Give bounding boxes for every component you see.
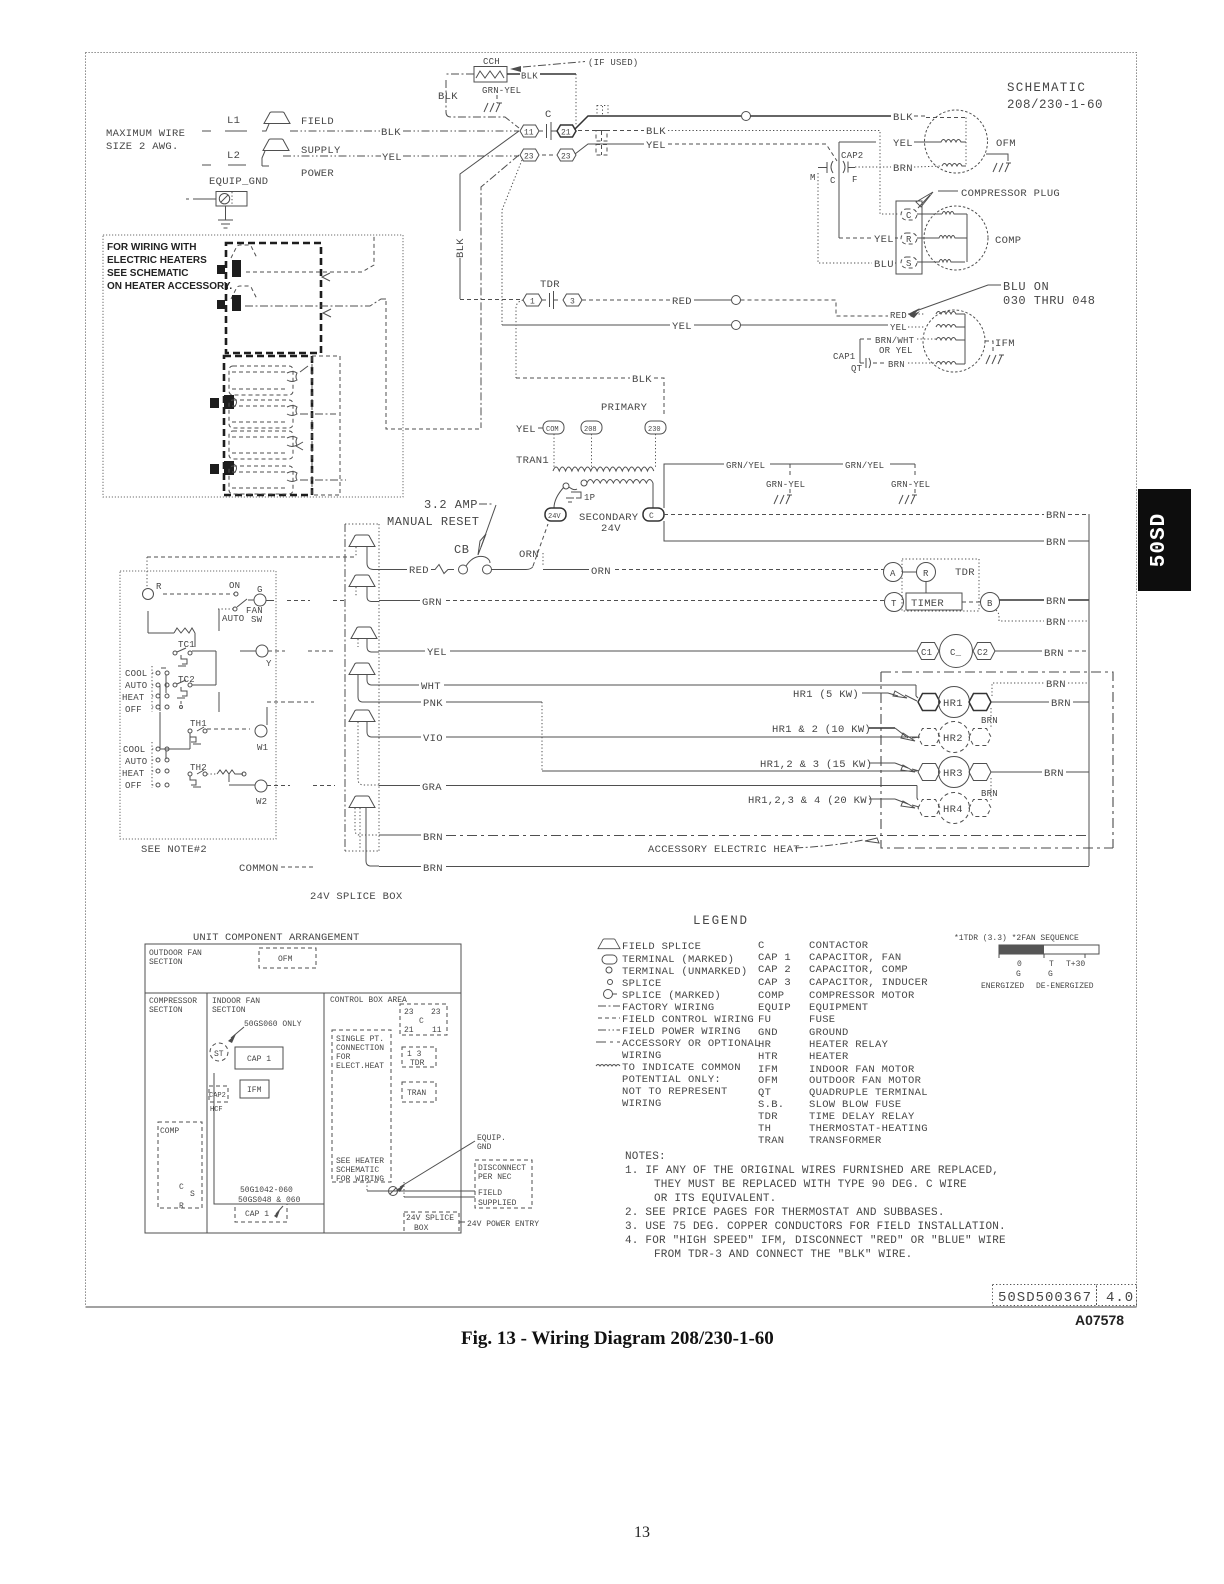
- svg-text:TDR: TDR: [955, 567, 975, 579]
- svg-text:50GS048 & 060: 50GS048 & 060: [238, 1196, 301, 1205]
- svg-text:SCHEMATIC: SCHEMATIC: [336, 1166, 379, 1175]
- svg-text:HR3: HR3: [943, 768, 963, 780]
- terminal W2: [255, 780, 267, 807]
- svg-text:POWER: POWER: [301, 168, 334, 180]
- svg-text:1P: 1P: [584, 493, 595, 503]
- COMP box: [158, 1122, 202, 1211]
- svg-text:COMPRESSOR MOTOR: COMPRESSOR MOTOR: [809, 990, 915, 1002]
- schematic title: [1007, 81, 1103, 112]
- svg-text:HCF: HCF: [210, 1106, 223, 1114]
- svg-text:CAPACITOR, COMP: CAPACITOR, COMP: [809, 964, 908, 976]
- svg-text:TDR: TDR: [758, 1111, 778, 1123]
- wire IFM to ground: [985, 341, 993, 353]
- svg-text:T: T: [1049, 960, 1054, 969]
- wire BRN row dashed: [379, 832, 1089, 844]
- selector lower COOL AUTO HEAT OFF: [122, 712, 190, 791]
- svg-text:COMP: COMP: [995, 235, 1021, 247]
- 50SD side tab: [1138, 489, 1191, 591]
- svg-text:SECTION: SECTION: [149, 1006, 183, 1015]
- svg-text:CONTACTOR: CONTACTOR: [809, 940, 869, 952]
- field splice R: [349, 535, 379, 570]
- plug terminal C: [901, 209, 917, 221]
- svg-text:W2: W2: [256, 797, 267, 807]
- wire R dashes: [147, 556, 355, 558]
- field splice GRN: [349, 575, 379, 602]
- svg-text:RED: RED: [890, 311, 907, 321]
- label SECONDARY 24V: [579, 512, 639, 535]
- wire TC2 to bus: [192, 684, 216, 686]
- svg-text:TC1: TC1: [178, 640, 195, 650]
- ground lug: [367, 1182, 475, 1197]
- svg-text:COMP: COMP: [758, 990, 784, 1002]
- wire YEL row: [268, 647, 917, 659]
- svg-text:R: R: [179, 1202, 184, 1211]
- svg-text:SUPPLIED: SUPPLIED: [478, 1199, 517, 1208]
- terminal 3 (TDR): [563, 294, 582, 307]
- thermostat outline: [120, 571, 276, 839]
- svg-text:Fig. 13 - Wiring Diagram 208/2: Fig. 13 - Wiring Diagram 208/230-1-60: [461, 1328, 774, 1349]
- svg-text:EQUIP: EQUIP: [758, 1002, 791, 1014]
- wire heater to YEL feed: [386, 301, 481, 429]
- right bus vertical: [1088, 514, 1090, 866]
- label INDOOR FAN SECTION: [212, 997, 260, 1015]
- secondary winding: [563, 480, 653, 509]
- contactor coil C2: [973, 643, 995, 660]
- svg-text:CAP2: CAP2: [209, 1092, 226, 1100]
- svg-text:SUPPLY: SUPPLY: [301, 145, 341, 157]
- svg-text:BRN: BRN: [1046, 679, 1066, 691]
- svg-text:11: 11: [432, 1026, 442, 1035]
- node L1: [202, 115, 247, 131]
- terminal 23 a: [520, 149, 539, 162]
- ground 2 GRN-YEL: [891, 464, 930, 504]
- svg-text:G: G: [257, 585, 263, 595]
- wire BRN/WHT to IFM: [860, 336, 936, 356]
- title block 50SD500367 / 4.0: [993, 1285, 1137, 1307]
- svg-text:YEL: YEL: [516, 424, 536, 436]
- svg-text:Y: Y: [266, 659, 272, 669]
- breaker CB contacts: [459, 556, 492, 574]
- svg-text:1. IF ANY OF THE ORIGINAL WIR: 1. IF ANY OF THE ORIGINAL WIRES FURNISHE…: [625, 1165, 999, 1177]
- heater relay HR2: [918, 722, 991, 753]
- svg-text:23: 23: [431, 1008, 441, 1017]
- svg-text:SINGLE PT.: SINGLE PT.: [336, 1035, 384, 1044]
- svg-text:C: C: [758, 940, 765, 952]
- wire BLK primary feed: [516, 374, 664, 414]
- svg-text:4.0: 4.0: [1106, 1290, 1134, 1306]
- svg-text:ENERGIZED: ENERGIZED: [981, 982, 1024, 991]
- label 50GS060 ONLY with arrow: [228, 1020, 302, 1043]
- svg-text:CAP 1: CAP 1: [758, 952, 791, 964]
- svg-text:BLU ON: BLU ON: [1003, 280, 1049, 294]
- svg-text:AUTO: AUTO: [125, 757, 147, 767]
- svg-text:TH2: TH2: [190, 763, 207, 773]
- svg-text:SECTION: SECTION: [212, 1006, 246, 1015]
- svg-text:COOL: COOL: [125, 669, 147, 679]
- wire BRN HR1-HR2: [981, 708, 998, 729]
- svg-text:HR1,2,3 & 4 (20 KW): HR1,2,3 & 4 (20 KW): [748, 795, 873, 807]
- svg-text:QT: QT: [758, 1087, 771, 1099]
- anticipator TC2: [173, 675, 195, 709]
- svg-text:R: R: [156, 582, 162, 592]
- svg-text:EQUIPMENT: EQUIPMENT: [809, 1002, 868, 1014]
- svg-text:HR: HR: [758, 1039, 772, 1051]
- svg-text:TH1: TH1: [190, 719, 207, 729]
- svg-text:24V POWER ENTRY: 24V POWER ENTRY: [467, 1220, 539, 1229]
- terminal COM: [543, 421, 564, 434]
- svg-text:HR1 (5 KW): HR1 (5 KW): [793, 689, 859, 701]
- wire BRN HR1 upper: [992, 679, 1089, 696]
- svg-text:50G1042-060: 50G1042-060: [240, 1186, 293, 1195]
- svg-text:R: R: [906, 235, 912, 245]
- thermostat TH1: [188, 719, 207, 749]
- contact bars TDR: [542, 299, 558, 301]
- svg-text:CAPACITOR, INDUCER: CAPACITOR, INDUCER: [809, 977, 928, 989]
- wire TH1 to W1: [207, 728, 250, 730]
- wire R to TIMER: [925, 582, 927, 594]
- legend symbol terminal marked: [602, 954, 734, 966]
- heater lower inner dashed box: [312, 356, 340, 495]
- svg-text:MAXIMUM WIRE: MAXIMUM WIRE: [106, 128, 185, 140]
- ground OFM: [993, 163, 1011, 172]
- legend symbol terminal unmarked: [606, 966, 747, 978]
- wire YEL vertical to IFM: [502, 160, 522, 325]
- svg-text:BRN: BRN: [1046, 537, 1066, 549]
- svg-text:OUTDOOR FAN MOTOR: OUTDOOR FAN MOTOR: [809, 1075, 922, 1087]
- svg-text:24V SPLICE: 24V SPLICE: [406, 1214, 454, 1223]
- field splice VIO: [349, 710, 379, 785]
- svg-text:FIELD SPLICE: FIELD SPLICE: [622, 941, 701, 953]
- wire ORN to 24V: [492, 524, 549, 570]
- svg-text:BRN: BRN: [981, 789, 998, 799]
- svg-text:EQUIP.: EQUIP.: [477, 1134, 506, 1143]
- svg-text:ORN: ORN: [591, 566, 611, 578]
- svg-text:030 THRU 048: 030 THRU 048: [1003, 294, 1095, 308]
- svg-text:FIELD: FIELD: [301, 116, 334, 128]
- svg-text:TRAN1: TRAN1: [516, 455, 549, 467]
- label BLU ON 030 THRU 048 with arrow: [908, 280, 1095, 317]
- quadruple terminal QT3: [596, 145, 607, 156]
- svg-text:YEL: YEL: [890, 323, 907, 333]
- coil C: [940, 635, 973, 668]
- svg-text:CAPACITOR, FAN: CAPACITOR, FAN: [809, 952, 901, 964]
- svg-text:INDOOR FAN: INDOOR FAN: [212, 997, 260, 1006]
- svg-text:PNK: PNK: [423, 698, 443, 710]
- svg-text:HEATER RELAY: HEATER RELAY: [809, 1039, 889, 1051]
- terminal Y: [240, 645, 272, 669]
- svg-text:CAP1: CAP1: [833, 352, 855, 362]
- svg-text:BRN: BRN: [888, 360, 905, 370]
- svg-text:TRAN: TRAN: [758, 1135, 784, 1147]
- svg-text:3. USE 75 DEG. COPPER CONDUCT: 3. USE 75 DEG. COPPER CONDUCTORS FOR FIE…: [625, 1221, 1006, 1233]
- svg-text:OUTDOOR FAN: OUTDOOR FAN: [149, 949, 202, 958]
- bus vertical thermostat: [216, 609, 219, 712]
- node L2: [202, 150, 246, 165]
- wire TIMER to B: [962, 601, 980, 603]
- terminal W1: [255, 707, 268, 753]
- svg-text:HR2: HR2: [943, 733, 963, 745]
- wire BLK left of CCH: [438, 74, 519, 128]
- resistor CCH: [474, 67, 507, 83]
- svg-text:23: 23: [404, 1008, 414, 1017]
- wire BRN from B solid: [1000, 596, 1090, 608]
- svg-text:THERMOSTAT-HEATING: THERMOSTAT-HEATING: [809, 1123, 928, 1135]
- svg-text:COMPRESSOR: COMPRESSOR: [149, 997, 197, 1006]
- svg-text:2. SEE PRICE PAGES FOR THERMO: 2. SEE PRICE PAGES FOR THERMOSTAT AND SU…: [625, 1207, 945, 1219]
- svg-text:LEGEND: LEGEND: [693, 914, 749, 928]
- terminal A: [884, 563, 903, 582]
- svg-text:PRIMARY: PRIMARY: [601, 402, 648, 414]
- svg-text:ON: ON: [229, 581, 240, 591]
- svg-text:BLK: BLK: [438, 91, 458, 103]
- svg-text:1: 1: [530, 298, 535, 307]
- svg-text:TC2: TC2: [178, 675, 195, 685]
- svg-text:F: F: [852, 175, 858, 185]
- wire YEL to OFM: [839, 138, 925, 150]
- svg-text:GRN: GRN: [422, 597, 442, 609]
- label OUTDOOR FAN SECTION: [149, 949, 202, 967]
- svg-text:50GS060 ONLY: 50GS060 ONLY: [244, 1020, 302, 1029]
- svg-text:GRN-YEL: GRN-YEL: [766, 480, 805, 490]
- label MAXIMUM WIRE SIZE 2 AWG: [106, 128, 185, 153]
- label EQUIP. GND with arrow: [396, 1134, 506, 1192]
- motor COMP: [917, 206, 988, 270]
- legend accessory wiring: [596, 1038, 761, 1062]
- plug terminal R: [901, 233, 917, 245]
- svg-text:TDR: TDR: [540, 279, 560, 291]
- heat anticipator resistor W2: [207, 770, 255, 785]
- svg-text:A07578: A07578: [1075, 1312, 1124, 1328]
- heater relay row 1: [210, 366, 336, 428]
- svg-text:GRN/YEL: GRN/YEL: [726, 461, 765, 471]
- heater contactor box lower (bold dashed): [224, 356, 312, 495]
- wire ORN row to TDR A: [543, 566, 884, 578]
- terminal G: [248, 585, 266, 606]
- svg-text:BLU: BLU: [874, 259, 894, 271]
- svg-text:RED: RED: [672, 296, 692, 308]
- wire BRN HR3: [991, 768, 1089, 780]
- svg-text:ACCESSORY OR OPTIONAL: ACCESSORY OR OPTIONAL: [622, 1038, 761, 1050]
- heater accessory outer box: [103, 235, 403, 497]
- svg-text:YEL: YEL: [427, 647, 447, 659]
- svg-text:C2: C2: [977, 648, 988, 658]
- wire YEL to COM: [516, 424, 543, 436]
- field splice YEL: [351, 627, 379, 652]
- svg-text:13: 13: [634, 1524, 650, 1541]
- wire BLU plug S: [818, 173, 898, 271]
- arrow heater line 1: [322, 273, 330, 281]
- label HR1 & 2 (10 KW): [772, 724, 920, 741]
- heater contact 2: [217, 286, 257, 311]
- svg-text:24V: 24V: [601, 523, 621, 535]
- wire PNK row: [267, 698, 917, 771]
- label 50G1042-060: [238, 1186, 301, 1205]
- svg-text:CAP2: CAP2: [841, 151, 863, 161]
- wire BRN HR1: [991, 698, 1089, 710]
- contactor coil C1: [917, 643, 939, 660]
- svg-text:FACTORY WIRING: FACTORY WIRING: [622, 1002, 714, 1014]
- svg-text:FROM TDR-3 AND CONNECT THE "BL: FROM TDR-3 AND CONNECT THE "BLK" WIRE.: [654, 1249, 912, 1261]
- wire dashed into TDR 1: [460, 299, 523, 301]
- svg-text:SEE NOTE#2: SEE NOTE#2: [141, 844, 207, 856]
- heater relay row 2: [210, 431, 346, 494]
- wire VIO row: [379, 733, 917, 745]
- svg-text:UNIT COMPONENT ARRANGEMENT: UNIT COMPONENT ARRANGEMENT: [193, 932, 359, 944]
- svg-text:CAP 1: CAP 1: [247, 1055, 271, 1064]
- fuse 1P: [566, 487, 595, 503]
- svg-text:BRN: BRN: [1044, 768, 1064, 780]
- wire BLK from CCH right: [507, 72, 576, 126]
- wire GRN/YEL bus: [664, 461, 915, 508]
- svg-text:AUTO: AUTO: [222, 614, 244, 624]
- svg-text:GND: GND: [758, 1027, 778, 1039]
- svg-text:G: G: [1016, 970, 1021, 979]
- arrangement outer box: [145, 944, 461, 1233]
- svg-text:CCH: CCH: [483, 57, 500, 67]
- legend common potential: [596, 1062, 741, 1110]
- heater relay HR3: [918, 757, 991, 788]
- svg-text:HEAT: HEAT: [122, 693, 145, 703]
- svg-text:GND: GND: [477, 1143, 492, 1152]
- svg-text:G: G: [1048, 970, 1053, 979]
- legend field control wiring: [598, 1014, 754, 1026]
- svg-text:YEL: YEL: [646, 140, 666, 152]
- TDR box: [902, 559, 979, 611]
- primary winding: [553, 434, 656, 471]
- wire GRA row: [267, 782, 917, 794]
- svg-text:C: C: [830, 176, 836, 186]
- svg-text:BLK: BLK: [632, 374, 652, 386]
- svg-text:PER NEC: PER NEC: [478, 1173, 512, 1182]
- svg-text:BRN: BRN: [981, 716, 998, 726]
- svg-text:ACCESSORY ELECTRIC HEAT: ACCESSORY ELECTRIC HEAT: [648, 844, 800, 856]
- svg-text:BLK: BLK: [455, 238, 467, 258]
- svg-text:ON HEATER ACCESSORY.: ON HEATER ACCESSORY.: [107, 281, 232, 292]
- svg-text:YEL: YEL: [382, 152, 402, 164]
- svg-text:BRN: BRN: [1044, 648, 1064, 660]
- wire CAP2-C down to plug R: [838, 142, 840, 238]
- divider horizontal: [145, 992, 461, 994]
- svg-text:YEL: YEL: [672, 321, 692, 333]
- divider verticals: [207, 993, 324, 1233]
- 24V splice box (arrangement): [404, 1212, 459, 1233]
- anticipator TC1: [148, 611, 195, 666]
- accessory box dash-dot outline: [881, 672, 1113, 848]
- label HR1 (5 KW): [793, 689, 917, 701]
- svg-text:SPLICE: SPLICE: [622, 978, 662, 990]
- svg-text:CONNECTION: CONNECTION: [336, 1044, 384, 1053]
- svg-text:50SD: 50SD: [1148, 513, 1171, 567]
- svg-text:GRN/YEL: GRN/YEL: [845, 461, 884, 471]
- svg-text:HEATER: HEATER: [809, 1051, 849, 1063]
- svg-text:C: C: [419, 1017, 424, 1026]
- svg-text:L2: L2: [227, 150, 240, 162]
- label COMPRESSOR SECTION: [149, 997, 197, 1015]
- compressor plug box: [896, 201, 922, 274]
- svg-text:SEE HEATER: SEE HEATER: [336, 1157, 384, 1166]
- terminal R: [143, 582, 163, 600]
- note text FOR WIRING WITH ELECTRIC HEATERS: [107, 242, 232, 292]
- svg-text:FIELD CONTROL WIRING: FIELD CONTROL WIRING: [622, 1014, 754, 1026]
- wire 23-23: [542, 154, 555, 156]
- heater relay HR4: [918, 793, 991, 824]
- thermostat TH2: [188, 763, 207, 787]
- svg-text:M: M: [810, 173, 816, 183]
- fan sequence chart: [954, 934, 1099, 991]
- svg-text:FIELD POWER WIRING: FIELD POWER WIRING: [622, 1026, 741, 1038]
- svg-text:TIMER: TIMER: [911, 598, 944, 610]
- heater relay HR1: [918, 687, 991, 718]
- wire BRN CAP1 to IFM: [873, 360, 936, 370]
- ground IFM: [986, 355, 1004, 364]
- wire YEL vertical to TRAN: [481, 155, 519, 428]
- capacitor CAP2: [810, 151, 863, 186]
- svg-text:S: S: [190, 1190, 195, 1199]
- ground 1 GRN-YEL: [766, 464, 805, 504]
- terminal 11: [520, 125, 539, 138]
- svg-text:21: 21: [404, 1026, 414, 1035]
- svg-text:COOL: COOL: [123, 745, 145, 755]
- svg-text:COM: COM: [546, 426, 559, 434]
- capacitor CAP1: [833, 339, 871, 374]
- legend symbol splice: [608, 978, 662, 990]
- wire A-R: [903, 571, 918, 573]
- field splice WHT/PNK: [349, 663, 379, 702]
- svg-text:QT: QT: [851, 364, 863, 374]
- terminal 23 b: [557, 149, 576, 162]
- svg-text:IFM: IFM: [247, 1086, 262, 1095]
- start thermistor ST: [210, 1043, 228, 1061]
- wire BRN row solid: [379, 863, 1089, 875]
- svg-text:208/230-1-60: 208/230-1-60: [1007, 98, 1103, 112]
- svg-text:DISCONNECT: DISCONNECT: [478, 1164, 526, 1173]
- wire BRN CAP2 to OFM: [855, 163, 942, 175]
- quadruple terminal QT2: [596, 131, 607, 142]
- OFM box: [259, 948, 316, 968]
- wire BRN from B dashed: [996, 610, 1089, 629]
- legend abbreviations column: [758, 940, 928, 1147]
- svg-text:ST: ST: [214, 1050, 224, 1059]
- svg-text:SPLICE (MARKED): SPLICE (MARKED): [622, 990, 721, 1002]
- wire WHT into HR1: [916, 685, 918, 698]
- svg-text:SECTION: SECTION: [149, 958, 183, 967]
- svg-text:ELECTRIC HEATERS: ELECTRIC HEATERS: [107, 255, 207, 266]
- wire R to fan switch: [163, 593, 234, 595]
- svg-text:FOR WIRING: FOR WIRING: [336, 1175, 384, 1184]
- single point box: [332, 1030, 391, 1184]
- svg-text:SIZE 2 AWG.: SIZE 2 AWG.: [106, 141, 179, 153]
- svg-text:TIME DELAY RELAY: TIME DELAY RELAY: [809, 1111, 915, 1123]
- svg-text:OFM: OFM: [758, 1075, 778, 1087]
- svg-text:W1: W1: [257, 743, 268, 753]
- svg-text:YEL: YEL: [874, 234, 894, 246]
- svg-text:HR1: HR1: [943, 698, 963, 710]
- svg-text:COMPRESSOR PLUG: COMPRESSOR PLUG: [961, 188, 1060, 200]
- wire BLK supply row: [290, 127, 519, 139]
- field splice L2: [262, 139, 289, 166]
- svg-text:BOX: BOX: [414, 1224, 429, 1233]
- wire BLK row 2 to compressor plug C: [578, 126, 898, 214]
- svg-text:TRANSFORMER: TRANSFORMER: [809, 1135, 882, 1147]
- quadruple terminal QT1: [597, 106, 608, 117]
- svg-text:FUSE: FUSE: [809, 1014, 835, 1026]
- svg-text:*1TDR (3.3) *2FAN SEQUENCE: *1TDR (3.3) *2FAN SEQUENCE: [954, 934, 1079, 943]
- svg-text:WHT: WHT: [421, 681, 441, 693]
- svg-text:C_: C_: [950, 648, 962, 658]
- svg-text:1 3: 1 3: [407, 1050, 422, 1059]
- label COMMON: [239, 863, 316, 875]
- svg-text:21: 21: [561, 129, 571, 138]
